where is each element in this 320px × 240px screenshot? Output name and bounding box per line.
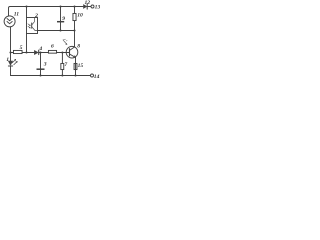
- svg-text:5: 5: [20, 45, 23, 51]
- svg-text:14: 14: [94, 74, 100, 80]
- svg-text:11: 11: [14, 12, 19, 18]
- svg-text:9: 9: [62, 16, 65, 22]
- svg-text:4: 4: [38, 46, 42, 52]
- svg-text:6: 6: [51, 44, 54, 50]
- svg-text:7: 7: [64, 62, 67, 68]
- svg-text:3: 3: [43, 62, 47, 68]
- svg-text:1: 1: [6, 57, 9, 63]
- svg-text:13: 13: [95, 5, 100, 11]
- svg-text:12: 12: [85, 0, 91, 6]
- svg-text:8: 8: [77, 44, 80, 50]
- svg-text:2: 2: [34, 13, 38, 19]
- svg-text:15: 15: [78, 63, 84, 69]
- svg-text:10: 10: [77, 13, 83, 19]
